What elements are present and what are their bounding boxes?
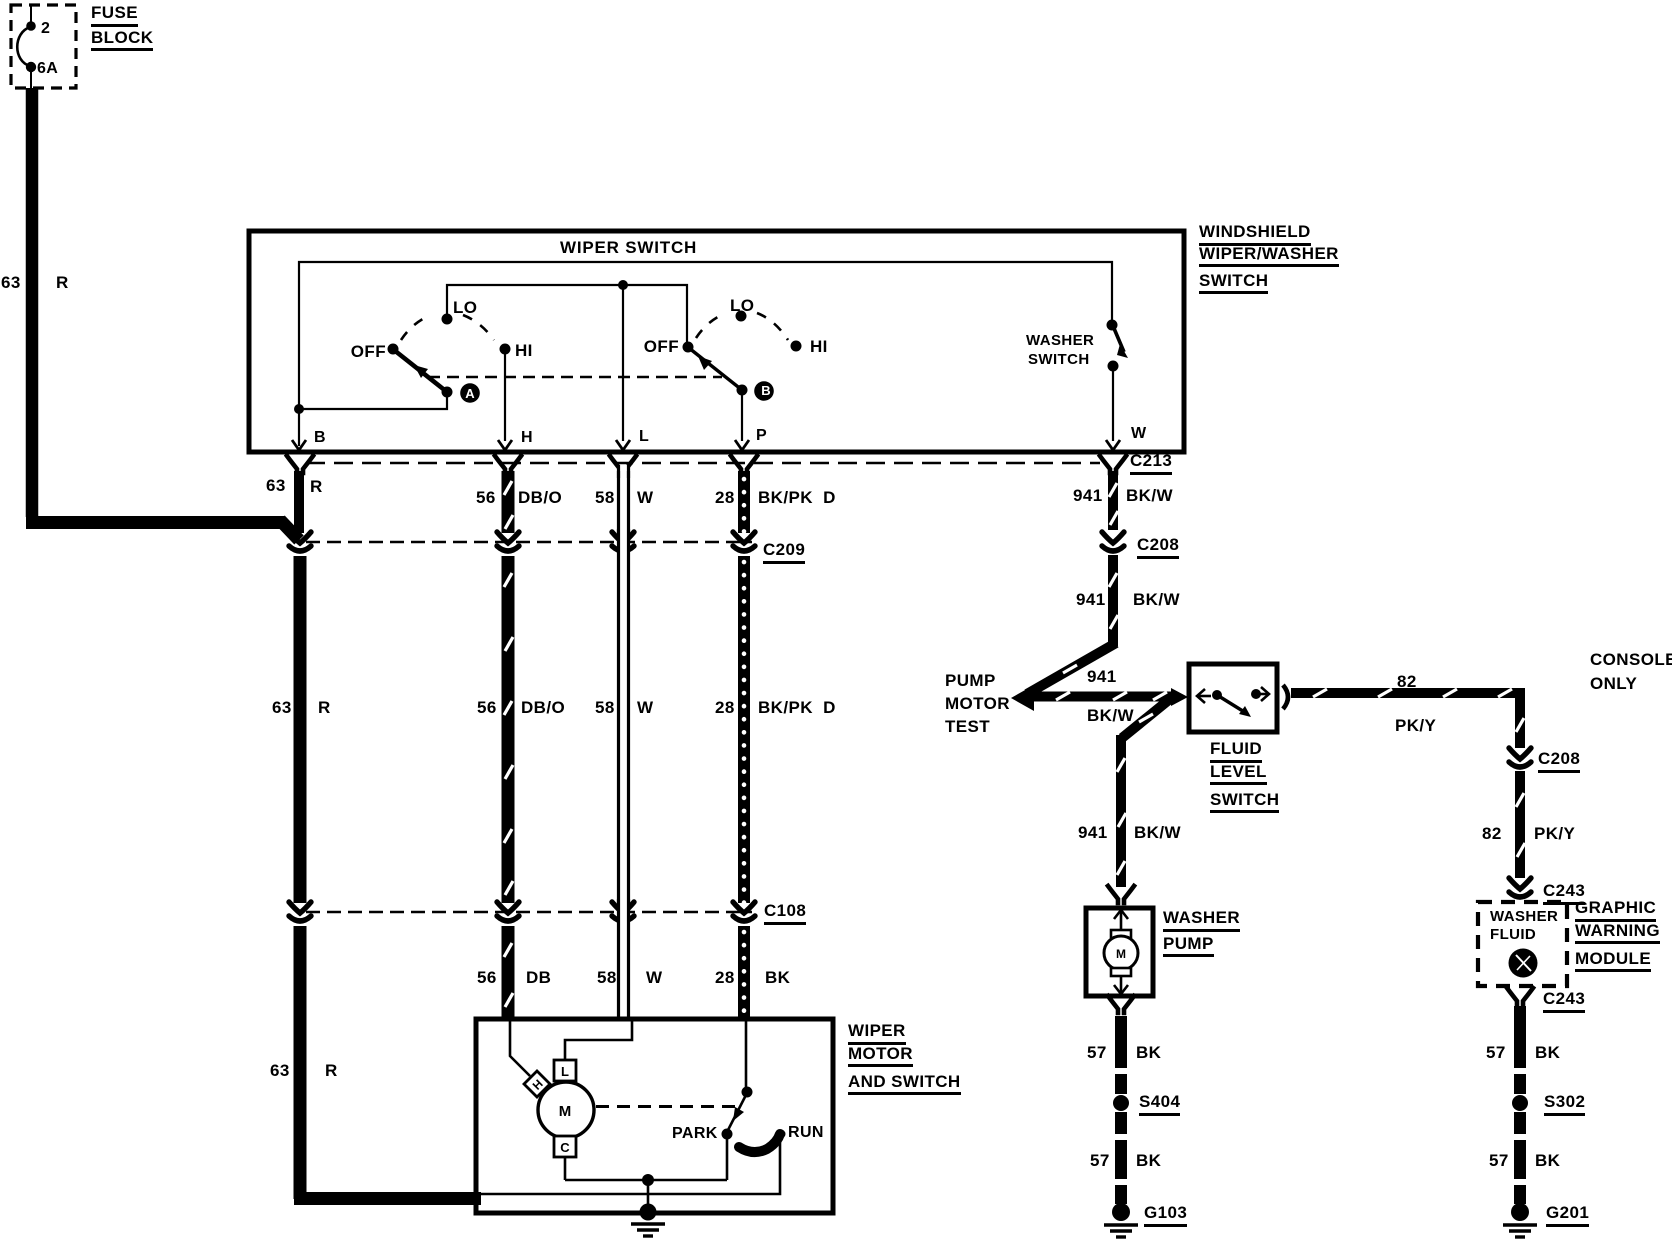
svg-text:M: M [559, 1103, 572, 1120]
connector C209 pin 63 [289, 532, 311, 551]
label RUN [788, 1125, 824, 1141]
washer fluid module dashed box [1478, 902, 1567, 986]
wire 63 R (C108 to wiper motor) [294, 926, 481, 1199]
connector line C209 (dashed) [306, 541, 752, 543]
wiper switch outer box [249, 231, 1184, 452]
connector C209 pin 58 [612, 529, 634, 556]
washer pump brush bottom [1111, 968, 1131, 976]
terminal arrow W [1106, 440, 1120, 450]
park switch lever [727, 1093, 747, 1132]
label BK/PK D row1 [758, 489, 836, 506]
label C209 [763, 541, 805, 558]
label 58 row3 [597, 969, 617, 986]
fluid level switch connector cup (right) [1283, 685, 1288, 709]
label HI (switch 2) [810, 338, 828, 355]
connector C213 pin B [287, 456, 313, 473]
label BK right lower [1535, 1152, 1560, 1169]
fuse block dashed box [11, 5, 76, 88]
label BK/W mid [1133, 591, 1180, 608]
connector line C108 (dashed) [306, 911, 752, 913]
fluid level switch connector arrow (left) [1171, 688, 1188, 706]
label 56 row2 [477, 699, 497, 716]
label PK/Y upper [1395, 717, 1436, 734]
connector (washer pump top) [1108, 886, 1134, 903]
label BK/W lower [1134, 824, 1181, 841]
connector C108 pin 63 [289, 902, 311, 921]
label 58 row2 [595, 699, 615, 716]
wiper switch 1 LO contact [442, 314, 453, 325]
wire: junction to wiper sw A contact [299, 396, 447, 409]
label terminal B [314, 430, 326, 446]
ground G (motor case) [631, 1204, 665, 1237]
label PK/Y lower [1534, 825, 1575, 842]
washer fluid indicator lamp [1509, 949, 1538, 978]
park switch pivot [742, 1087, 753, 1098]
wire 82 PK/Y (fluid switch to console corner) [1291, 689, 1525, 748]
terminal arrow L [616, 440, 630, 450]
label 28 row1 [715, 489, 735, 506]
wiper switch 2 LO contact [736, 311, 747, 322]
washer switch lower contact [1108, 361, 1119, 372]
label 28 row3 [715, 969, 735, 986]
washer pump motor M [1104, 936, 1138, 970]
wiper motor M [538, 1082, 594, 1138]
connector C213 pin W [1100, 456, 1126, 473]
connector C243 (bottom) [1507, 988, 1533, 1005]
wire 82 PK/Y (C208 to C243) [1516, 771, 1525, 878]
label C108 [764, 902, 806, 919]
dashed link motor to park switch [596, 1105, 737, 1108]
label R (feed) [56, 274, 69, 291]
wire 57 BK (pump to ground) [1115, 1016, 1127, 1204]
brush H terminal (diamond) [524, 1071, 550, 1097]
label 941 mid [1076, 591, 1106, 608]
wiper switch 2 OFF contact [683, 342, 694, 353]
label CONSOLE ONLY [1590, 651, 1672, 692]
label OFF (switch 2) [644, 338, 679, 355]
label WASHER PUMP [1163, 909, 1240, 957]
label C208 [1137, 536, 1179, 553]
label W row1 [637, 489, 653, 506]
wire: ground bus [565, 1179, 727, 1182]
mechanical coupling dashed line [428, 376, 722, 379]
label 56 row3 [477, 969, 497, 986]
brush C terminal [554, 1136, 576, 1157]
label R row1 [310, 478, 323, 495]
wire 28 BK/PK D (C213 to C209) [738, 471, 750, 533]
wire: inner feed line B to washer switch [299, 262, 1112, 446]
wire: C brush to ground bus [564, 1157, 567, 1180]
wire 56 DB (C108 to wiper motor box) [504, 926, 513, 1021]
label 57 left lower [1090, 1152, 1110, 1169]
label 63 row3 [270, 1062, 290, 1079]
splice S302 [1512, 1095, 1528, 1111]
wiper switch 2 lever OFF-B [689, 348, 742, 390]
wire 941 BK/W (C213 to C208) [1109, 471, 1118, 530]
ground G103 [1104, 1203, 1138, 1237]
label terminal H [521, 430, 533, 446]
wiper switch 1 contact A [442, 387, 453, 398]
label 82 upper [1397, 673, 1417, 690]
connector C208 on 941 wire [1102, 532, 1124, 551]
label WINDSHIELD WIPER/WASHER SWITCH [1199, 223, 1339, 294]
splice S404 [1113, 1095, 1129, 1111]
wire: L tap down [622, 285, 624, 441]
label G103 [1144, 1204, 1187, 1221]
label C243 bottom [1543, 990, 1585, 1007]
label DB/O row1 [518, 489, 562, 506]
wire 28 BK/PK D (C209 to C108) [738, 556, 750, 903]
terminal arrow P [735, 440, 749, 450]
label DB/O row2 [521, 699, 565, 716]
label DB row3 [526, 969, 551, 986]
node A marker [460, 383, 480, 403]
label 82 lower [1482, 825, 1502, 842]
wire: 56 to brush H [510, 1021, 530, 1076]
connector C213 pin H [495, 456, 521, 473]
terminal arrow B [292, 440, 306, 450]
label 28 row2 [715, 699, 735, 716]
label terminal L [639, 429, 649, 445]
brush L terminal [554, 1060, 576, 1081]
label WIPER SWITCH [560, 239, 697, 256]
label FUSE BLOCK [91, 4, 153, 51]
label FLUID LEVEL SWITCH [1210, 740, 1279, 813]
wire: HI1 down to H terminal [504, 352, 506, 441]
wire: B contact down to P terminal [741, 390, 743, 441]
washer pump terminal arrow up [1114, 910, 1128, 932]
ground G201 [1503, 1203, 1537, 1237]
fluid level switch box [1189, 664, 1277, 732]
pump motor test connector arrow [1011, 685, 1034, 711]
wire: washer switch to W terminal [1112, 366, 1114, 441]
wire: RUN to feed [479, 1139, 780, 1194]
connector C108 pin 56 [497, 902, 519, 921]
label S404 [1139, 1093, 1180, 1110]
node: ground junction [642, 1174, 654, 1186]
wire 63 R (C213 to C209) [294, 471, 304, 533]
label R row2 [318, 699, 331, 716]
wire 63 R (C209 to C108) [294, 556, 307, 903]
washer pump brush top [1111, 930, 1131, 938]
washer pump terminal arrow down [1114, 976, 1128, 994]
label 63 row2 [272, 699, 292, 716]
wiper switch 2 dashed arc [696, 313, 726, 338]
terminal arrow H [498, 440, 512, 450]
wire: 28 to park switch pivot [745, 1021, 748, 1090]
label terminal W [1131, 426, 1147, 442]
label PARK [672, 1126, 718, 1142]
label OFF (switch 1) [351, 343, 386, 360]
label PUMP MOTOR TEST [945, 672, 1010, 735]
wire: LO1 to line, L tap, to OFF2 [447, 285, 687, 342]
node: L tap junction [618, 280, 628, 290]
label 63 (feed) [1, 274, 21, 291]
label WASHER SWITCH [1026, 333, 1094, 367]
wire 58 W (C108 to wiper motor box) [619, 926, 629, 1021]
svg-text:L: L [561, 1064, 569, 1079]
label terminal P [756, 428, 767, 444]
label BK left upper [1136, 1044, 1161, 1061]
fluid level switch internals [1197, 687, 1269, 717]
label 56 row1 [476, 489, 496, 506]
wire 58 W (C209 to C108) [619, 556, 629, 903]
wire 58 W (C213 to C209) [619, 471, 629, 533]
label HI (switch 1) [515, 342, 533, 359]
label BK left lower [1136, 1152, 1161, 1169]
wiper switch 2 HI contact [791, 341, 802, 352]
label BK right upper [1535, 1044, 1560, 1061]
label C208 console [1538, 750, 1580, 767]
connector line C213 (dashed) [306, 462, 1100, 465]
label LO (switch 2) [730, 297, 754, 314]
wiper switch 1 lever OFF-A [394, 350, 447, 392]
svg-text:A: A [465, 386, 475, 401]
wire 63 R feed from fuse [26, 88, 299, 540]
wiper motor and switch box [476, 1019, 833, 1213]
label BK/W row1 [1126, 487, 1173, 504]
label 941 lower [1078, 824, 1108, 841]
wire 28 BK (C108 to wiper motor box) [738, 926, 750, 1021]
connector C108 pin 58 [612, 899, 634, 926]
label S302 [1544, 1093, 1585, 1110]
label G201 [1546, 1204, 1589, 1221]
label WIPER MOTOR AND SWITCH [848, 1022, 961, 1095]
label fuse 6A [37, 61, 58, 77]
wire 56 DB/O (C209 to C108) [504, 556, 513, 903]
label 57 left upper [1087, 1044, 1107, 1061]
RUN contact arc [739, 1134, 780, 1152]
connector C108 pin 28 [733, 902, 755, 921]
PARK contact [722, 1129, 733, 1140]
label W row2 [637, 699, 653, 716]
washer switch lever [1113, 326, 1124, 352]
label 58 row1 [595, 489, 615, 506]
node B marker [754, 381, 774, 401]
wire: 58 to brush L [565, 1021, 632, 1059]
wiper switch 2 contact B [737, 385, 748, 396]
label 941 jog [1087, 668, 1117, 685]
wire 56 DB/O (C213 to C209) [504, 471, 513, 533]
connector C243 (top) [1509, 878, 1531, 897]
label BK row3 [765, 969, 790, 986]
svg-text:C: C [560, 1140, 570, 1155]
svg-text:B: B [761, 383, 770, 398]
label GRAPHIC WARNING MODULE [1575, 899, 1660, 972]
label 57 right upper [1486, 1044, 1506, 1061]
wire: PARK down [726, 1139, 729, 1180]
svg-text:M: M [1116, 947, 1126, 961]
label 941 row1 [1073, 487, 1103, 504]
washer pump box [1086, 908, 1153, 996]
label BK/W jog [1087, 707, 1134, 724]
wiper switch 1 dashed arc [401, 315, 431, 340]
wiper switch 1 OFF contact [388, 344, 399, 355]
label BK/PK D row2 [758, 699, 836, 716]
connector C209 pin 28 [733, 532, 755, 551]
label C243 top [1543, 882, 1585, 899]
fuse F (2, 6A) [17, 6, 36, 90]
node: B feed junction [294, 404, 304, 414]
label WASHER FLUID [1490, 909, 1558, 942]
washer switch upper contact [1107, 320, 1118, 331]
label C213 [1130, 452, 1172, 469]
connector (washer pump bottom) [1108, 996, 1134, 1013]
connector C209 pin 56 [497, 532, 519, 551]
label 57 right lower [1489, 1152, 1509, 1169]
connector C208 (console) [1509, 748, 1531, 767]
connector C213 pin P [731, 456, 757, 473]
wire: to case ground [647, 1180, 650, 1208]
label fuse 2 [41, 21, 50, 37]
wire 57 BK (module to ground) [1514, 1006, 1526, 1204]
label LO (switch 1) [453, 299, 477, 316]
wire 941 BK/W (C208 down, jog to pump motor test, down to pump) [1026, 555, 1174, 887]
wiper switch 1 HI contact [500, 344, 511, 355]
label R row3 [325, 1062, 338, 1079]
label W row3 [646, 969, 662, 986]
label 63 row1 [266, 477, 286, 494]
connector C213 pin L [610, 456, 636, 478]
